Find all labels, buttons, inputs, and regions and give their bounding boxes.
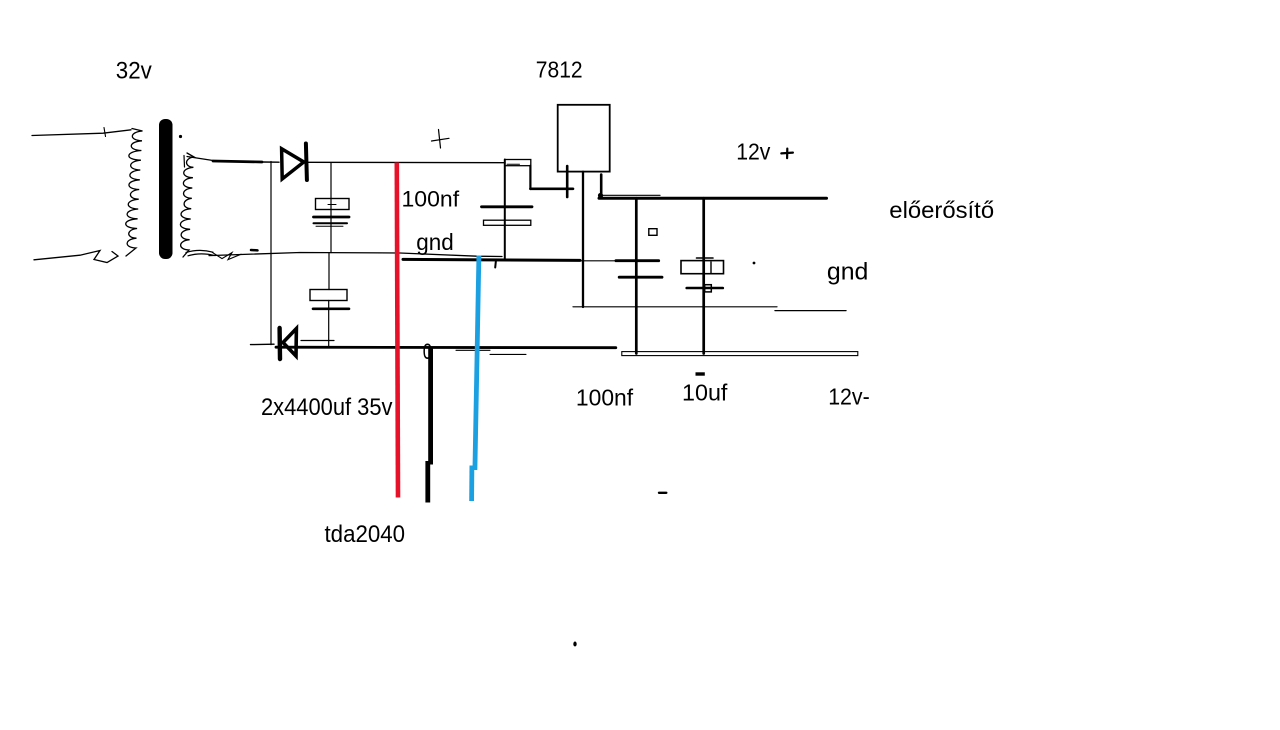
svg-text:gnd: gnd	[827, 258, 869, 285]
svg-text:100nf: 100nf	[402, 186, 460, 211]
svg-text:10uf: 10uf	[682, 380, 728, 406]
svg-text:12v: 12v	[736, 139, 771, 165]
svg-text:12v-: 12v-	[828, 384, 870, 410]
svg-text:előerősítő: előerősítő	[889, 197, 994, 223]
svg-text:2x4400uf 35v: 2x4400uf 35v	[261, 394, 393, 421]
svg-text:gnd: gnd	[416, 229, 454, 255]
svg-text:tda2040: tda2040	[325, 521, 406, 548]
svg-text:32v: 32v	[116, 57, 152, 84]
svg-text:100nf: 100nf	[576, 385, 634, 411]
svg-text:0: 0	[423, 339, 433, 364]
svg-text:7812: 7812	[536, 56, 583, 82]
